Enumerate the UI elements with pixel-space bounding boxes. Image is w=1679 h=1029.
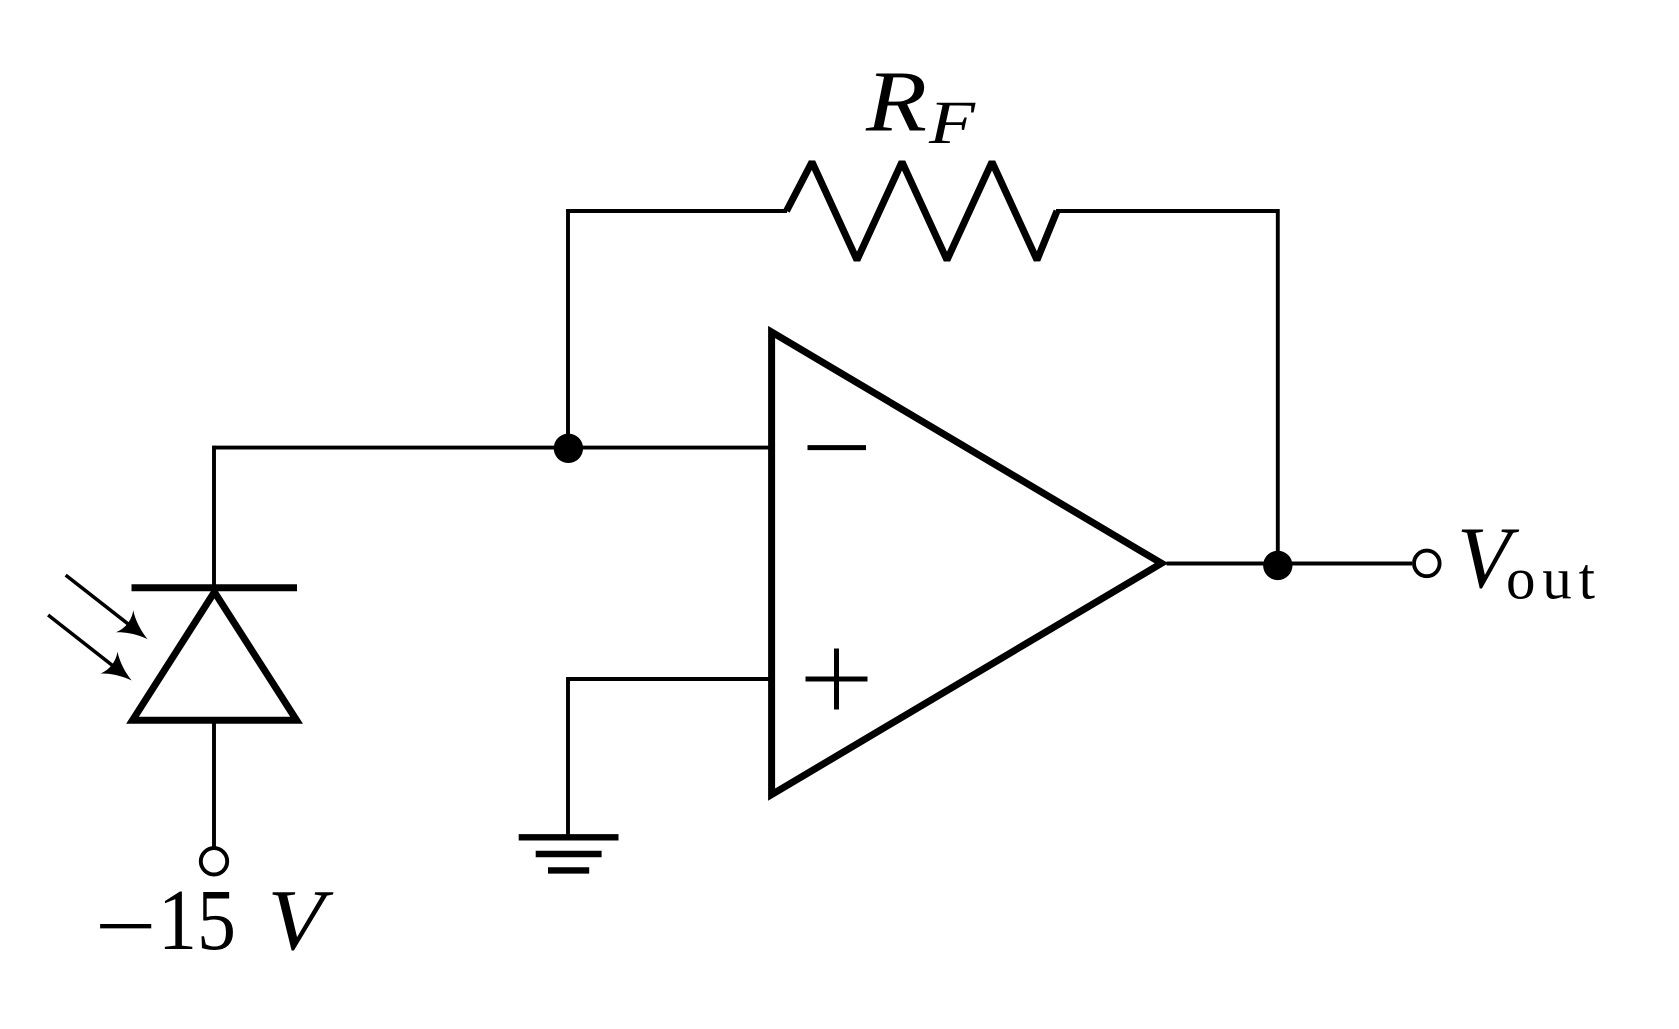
svg-text:−: − — [95, 877, 157, 974]
op-amp U1 triangle — [772, 332, 1162, 795]
wire output horizontal — [1167, 562, 1413, 566]
svg-text:15: 15 — [158, 871, 236, 968]
ground bar 3 — [548, 867, 589, 873]
svg-text:R: R — [865, 53, 927, 150]
wire top-right horizontal (resistor to feedback corner) — [1056, 209, 1278, 213]
resistor RF zigzag — [787, 162, 1058, 260]
wire feedback right vertical (down to output node) — [1276, 209, 1280, 565]
node B output junction — [1263, 551, 1292, 580]
wire plus input horizontal — [568, 677, 772, 681]
terminal -15V open circle — [201, 848, 227, 874]
photodiode D1 triangle — [133, 592, 297, 720]
wire top-left horizontal (node to resistor) — [568, 209, 787, 213]
wire left vertical (inverting node up to feedback) — [566, 209, 570, 448]
node A inverting input junction — [554, 434, 583, 463]
wire inverting input (photodiode to op-amp minus) — [214, 446, 772, 450]
light arrow 1 head — [116, 610, 156, 650]
svg-text:F: F — [928, 90, 976, 157]
wire photodiode top vertical — [212, 446, 216, 588]
op-amp minus sign — [808, 445, 867, 450]
ground bar 2 — [536, 851, 602, 857]
wire photodiode bottom vertical — [212, 720, 216, 847]
op-amp plus sign — [806, 649, 868, 710]
wire ground vertical — [566, 677, 570, 837]
light arrow 1 shaft — [66, 575, 132, 627]
svg-text:out: out — [1506, 546, 1596, 612]
light arrow 2 shaft — [48, 615, 116, 668]
svg-text:V: V — [268, 871, 334, 968]
ground bar 1 — [519, 834, 619, 840]
photodiode D1 cathode bar — [132, 584, 298, 591]
light arrow 2 head — [100, 652, 140, 692]
terminal Vout open circle — [1414, 551, 1440, 577]
